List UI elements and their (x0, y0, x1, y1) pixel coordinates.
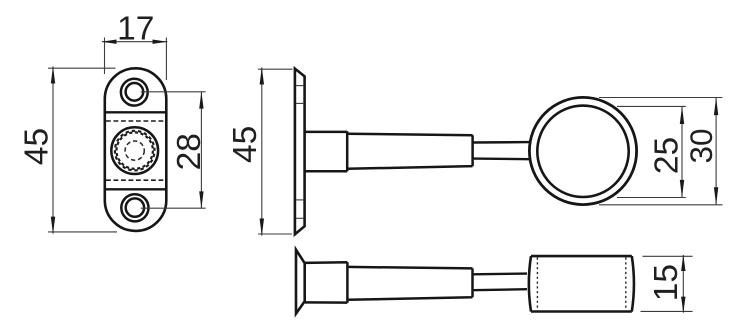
dimension 15 bottom arrowhead (681, 297, 685, 314)
dimension 30 dimension line (715, 98, 717, 205)
dimension 45 (front) extension line bottom (48, 231, 117, 233)
front view: center block top edge (104, 111, 167, 113)
dimension 17 extension line left (104, 38, 106, 75)
dimension 17 extension line right (165, 38, 167, 81)
top view: tangent dashed line right (625, 258, 627, 311)
side view: ring outer circle (529, 97, 636, 204)
dimension 25 extension line top (617, 105, 686, 107)
dimension 17 dimension line (102, 41, 167, 43)
front view: bottom screw hole outer circle (121, 194, 148, 221)
svg-text:15: 15 (648, 264, 685, 301)
dimension 28 top arrowhead (199, 91, 203, 108)
dimension 25 dimension line (681, 106, 683, 197)
svg-text:25: 25 (649, 137, 686, 174)
dimension 17 left arrowhead (101, 40, 116, 44)
side view: bottom hole edge line 2 (296, 217, 304, 219)
top view: stem section 2 (tapered) (347, 267, 472, 300)
top view: countersunk plate profile (296, 250, 305, 314)
front view: central boss outer circle (111, 127, 158, 174)
top view: thin rod (473, 274, 528, 291)
dimension 30 extension line top (599, 97, 723, 99)
dimension 45 (front) dimension line (52, 67, 54, 234)
dimension 45 (side) bottom arrowhead (260, 219, 264, 237)
dimension 45 (side) extension line top (258, 68, 293, 70)
dimension 45 (side) extension line bottom (258, 233, 292, 235)
dimension 30 top arrowhead (714, 97, 718, 115)
dimension 28 extension line top (from hole center) (141, 91, 206, 93)
dimension 30 bottom arrowhead (714, 187, 718, 205)
front view: hidden edge dashed line upper (106, 120, 165, 122)
dimension 45 (front) top arrowhead (51, 66, 55, 84)
top view: tangent dashed line left (536, 258, 538, 311)
side view: countersunk plate profile (295, 69, 305, 235)
front view: bottom screw hole inner circle (126, 198, 144, 216)
svg-text:45: 45 (227, 126, 264, 163)
side view: stem section 1 (305, 131, 348, 171)
dimension 15 dimension line (682, 255, 684, 313)
front view: hidden edge dashed line lower (106, 179, 165, 181)
dimension 25 top arrowhead (680, 106, 684, 124)
front view: inner hidden dashed circle (125, 141, 144, 160)
top view: ring cylinder outline (529, 256, 634, 311)
side view: top hole edge line 1 (296, 85, 304, 87)
dimension 28 bottom arrowhead (199, 191, 203, 208)
dimension 17 right arrowhead (153, 40, 168, 44)
svg-text:28: 28 (171, 133, 208, 170)
side view: bottom hole edge line 1 (296, 199, 304, 201)
front view: oval mounting plate outline (105, 68, 167, 231)
side view: stem section 2 (tapered) (347, 134, 472, 169)
top view: stem section 1 (305, 262, 348, 303)
svg-text:30: 30 (683, 128, 719, 163)
dimension 15 extension line top (643, 255, 693, 257)
dimension 45 (front) bottom arrowhead (51, 217, 55, 235)
svg-text:45: 45 (19, 128, 56, 165)
side view: thin rod (473, 142, 529, 159)
svg-text:17: 17 (117, 11, 154, 48)
front view: knurled ring (serrated dashed circle) (115, 131, 155, 171)
dimension 45 (front) extension line top (48, 67, 116, 69)
front view: center block bottom edge (104, 188, 167, 190)
front view: top screw hole inner circle (126, 83, 144, 101)
dimension 28 extension line bottom (from hole center) (141, 207, 206, 209)
dimension 45 (side) dimension line (261, 68, 263, 236)
side view: top hole edge line 2 (296, 102, 304, 104)
dimension 30 extension line bottom (599, 204, 723, 206)
dimension 45 (side) top arrowhead (260, 67, 264, 85)
dimension 15 top arrowhead (681, 254, 685, 271)
dimension 15 extension line bottom (641, 310, 693, 312)
dimension 25 extension line bottom (617, 197, 686, 199)
front view: top screw hole outer circle (121, 79, 148, 106)
dimension 25 bottom arrowhead (680, 180, 684, 198)
side view: ring inner circle (537, 106, 628, 197)
dimension 28 dimension line (200, 92, 202, 208)
